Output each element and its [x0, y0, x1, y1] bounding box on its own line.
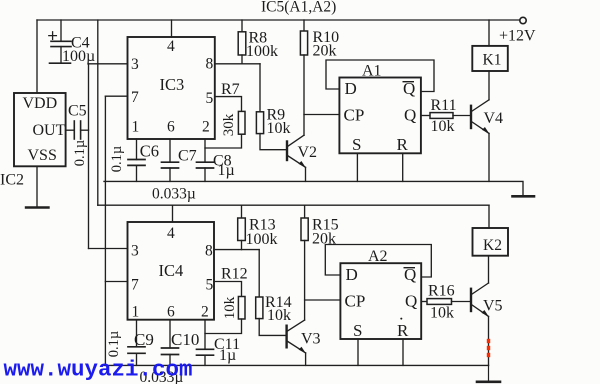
- svg-text:10k: 10k: [431, 118, 455, 135]
- svg-text:100k: 100k: [246, 231, 278, 248]
- svg-text:8: 8: [205, 243, 213, 260]
- resistor R10: [300, 20, 307, 135]
- wire IC4 pin6 riser: [169, 320, 171, 348]
- wire VSS ground lead: [36, 166, 38, 207]
- svg-text:C6: C6: [140, 142, 159, 161]
- transistor V5: [471, 283, 489, 365]
- wire K2 top riser from bus2: [488, 205, 490, 228]
- svg-text:2: 2: [201, 304, 209, 321]
- svg-text:100µ: 100µ: [62, 48, 95, 65]
- svg-text:1µ: 1µ: [218, 162, 235, 179]
- red dashed mark on V5 emitter: [487, 339, 490, 357]
- capacitor C11: [197, 349, 214, 365]
- transistor V2: [287, 135, 306, 181]
- svg-text:Q: Q: [405, 292, 417, 311]
- svg-text:IC3: IC3: [160, 75, 185, 94]
- resistor R15: [301, 205, 308, 320]
- svg-text:20k: 20k: [312, 231, 336, 248]
- wire CP lead A2: [305, 299, 341, 301]
- svg-text:V4: V4: [484, 110, 504, 127]
- svg-text:0.1µ: 0.1µ: [106, 331, 122, 357]
- svg-text:C7: C7: [178, 147, 197, 164]
- svg-text:D: D: [345, 79, 357, 98]
- svg-text:R: R: [397, 135, 409, 154]
- svg-text:30k: 30k: [221, 113, 237, 136]
- wire A2 D feedback loop from Qbar: [325, 245, 431, 278]
- svg-text:4: 4: [167, 225, 175, 242]
- svg-text:K1: K1: [483, 52, 502, 69]
- label IC4 pin numbers: [131, 225, 214, 321]
- flip-flop A2 box: [340, 263, 421, 339]
- capacitor C9: [128, 347, 145, 366]
- wire V4 collector riser to K1: [488, 71, 490, 100]
- transistor V4: [471, 100, 489, 182]
- wire IC4 pin4 riser: [172, 205, 174, 222]
- svg-text:0.1µ: 0.1µ: [109, 146, 125, 172]
- resistor R12 10k body: [238, 297, 245, 320]
- wire IC3 pin4 riser: [171, 20, 173, 37]
- svg-text:VSS: VSS: [28, 147, 57, 164]
- wire VDD riser: [36, 20, 38, 93]
- svg-text:D: D: [346, 265, 358, 284]
- wire IC4 pin2 riser: [204, 320, 206, 350]
- svg-text:3: 3: [131, 56, 139, 73]
- wire IC4 pin3 lead: [89, 248, 128, 250]
- watermark www.wuyazi.com: [4, 357, 193, 383]
- svg-text:3: 3: [131, 243, 139, 260]
- wire node pin3 net: C4 bottom to IC3 pin3: [89, 63, 128, 65]
- wire IC4 pin8 lead: [214, 249, 259, 251]
- wire pin7 vertical net: [104, 96, 106, 365]
- resistor R7 30k body: [238, 111, 245, 134]
- wire A2 Q lead: [421, 301, 427, 303]
- wire R12 bottom to pin2 riser: [205, 319, 242, 334]
- svg-text:R: R: [397, 321, 409, 340]
- wire bus3 lower ground bus: [104, 364, 489, 366]
- svg-text:4: 4: [167, 38, 175, 55]
- svg-text:1: 1: [132, 304, 140, 321]
- capacitor C4: [49, 20, 71, 63]
- svg-text:C9: C9: [134, 330, 154, 349]
- wire IC3 pin8 lead: [215, 63, 260, 65]
- resistor R16: [427, 299, 471, 305]
- svg-text:V5: V5: [483, 298, 503, 315]
- wire K1 top riser: [488, 20, 490, 46]
- wire IC3 pin7 lead: [105, 95, 127, 97]
- svg-text:1: 1: [132, 119, 140, 136]
- svg-text:S: S: [353, 321, 362, 340]
- svg-text:VDD: VDD: [23, 95, 58, 112]
- svg-text:5: 5: [206, 277, 214, 294]
- IC3 box: [128, 37, 215, 139]
- wire bus1 upper ground bus: [104, 181, 523, 195]
- capacitor C10: [162, 348, 179, 365]
- svg-text:CP: CP: [345, 292, 366, 311]
- ground symbol IC2: [26, 206, 49, 208]
- wire V5 collector riser to K2: [488, 256, 490, 283]
- svg-text:R12: R12: [221, 266, 248, 283]
- resistor R11: [430, 113, 471, 119]
- svg-text:2: 2: [202, 119, 210, 136]
- svg-text:IC4: IC4: [159, 261, 184, 280]
- ground symbol upper right: [513, 195, 535, 198]
- wire bus2 lower +V rail: [98, 204, 489, 206]
- svg-text:www.wuyazi.com: www.wuyazi.com: [4, 357, 193, 383]
- wire rail to lower rail (bus2) vertical: [97, 20, 99, 205]
- svg-text:10k: 10k: [267, 307, 291, 324]
- svg-text:R11: R11: [431, 97, 457, 114]
- capacitor C8: [197, 162, 214, 181]
- svg-text:V2: V2: [298, 144, 318, 161]
- wire IC4 pin7 lead: [105, 281, 127, 283]
- svg-text:10k: 10k: [267, 120, 291, 137]
- svg-text:10k: 10k: [222, 296, 238, 319]
- svg-text:6: 6: [167, 304, 175, 321]
- wire IC3 pin2 riser: [204, 139, 206, 162]
- relay K1 box: [472, 46, 508, 71]
- resistor R13: [238, 205, 246, 249]
- wire IC4 pin5 lead to R12: [214, 282, 242, 297]
- wire A1 S riser: [356, 153, 358, 181]
- svg-text:IC5(A1,A2): IC5(A1,A2): [261, 0, 336, 16]
- svg-text:A2: A2: [368, 248, 388, 265]
- flip-flop A1 box: [339, 78, 421, 154]
- svg-text:A1: A1: [362, 63, 382, 80]
- wire R7 bottom to pin2 riser: [205, 134, 242, 148]
- wire A2 S riser: [357, 339, 359, 365]
- wire A1 D feedback loop from Qbar: [326, 60, 434, 92]
- svg-text:1µ: 1µ: [219, 347, 236, 364]
- svg-text:10k: 10k: [430, 305, 454, 322]
- transistor V3: [287, 320, 306, 365]
- svg-text:R7: R7: [221, 81, 240, 98]
- wire IC4 pin1 riser: [136, 320, 138, 347]
- wire pin3 net vertical down to IC4 pin3: [88, 64, 90, 249]
- wire A2 R riser: [402, 339, 404, 365]
- svg-text:0.033µ: 0.033µ: [152, 186, 196, 203]
- svg-text:6: 6: [167, 119, 175, 136]
- resistor R14: [256, 250, 287, 336]
- svg-text:V3: V3: [301, 331, 321, 348]
- svg-text:100k: 100k: [246, 43, 278, 60]
- svg-text:+12V: +12V: [499, 28, 536, 45]
- svg-text:OUT: OUT: [33, 122, 66, 139]
- svg-text:S: S: [352, 135, 361, 154]
- svg-text:IC2: IC2: [0, 172, 24, 189]
- relay K2 box: [473, 228, 509, 256]
- capacitor C5: [66, 121, 89, 139]
- resistor R8: [238, 20, 246, 64]
- wire A1 Q lead: [421, 115, 430, 117]
- svg-text:K2: K2: [483, 237, 502, 254]
- capacitor C7: [162, 162, 179, 181]
- svg-text:20k: 20k: [313, 43, 337, 60]
- svg-text:8: 8: [206, 56, 214, 73]
- svg-text:Q: Q: [404, 106, 416, 125]
- svg-text:CP: CP: [344, 106, 365, 125]
- svg-text:R16: R16: [428, 283, 455, 300]
- svg-text:C5: C5: [68, 103, 87, 120]
- svg-text:5: 5: [206, 90, 214, 107]
- capacitor C6: [128, 160, 145, 182]
- svg-text:0.1µ: 0.1µ: [72, 140, 88, 166]
- svg-text:C10: C10: [171, 330, 199, 349]
- IC4 box: [128, 222, 215, 320]
- wire CP lead A1: [304, 114, 339, 116]
- wire top +12V rail: [37, 19, 519, 21]
- wire A1 R riser: [402, 153, 404, 181]
- IC2 box: [14, 93, 66, 166]
- wire IC3 pin5 lead to R7: [215, 97, 242, 112]
- wire IC3 pin6 riser: [169, 139, 171, 162]
- node +12V terminal: [520, 17, 526, 23]
- svg-text:7: 7: [131, 89, 139, 106]
- label IC3 pin numbers: [131, 38, 214, 136]
- resistor R9: [256, 64, 287, 150]
- svg-text:7: 7: [131, 277, 139, 294]
- ground symbol lower right: [477, 365, 500, 381]
- wire IC3 pin1 riser: [136, 139, 138, 160]
